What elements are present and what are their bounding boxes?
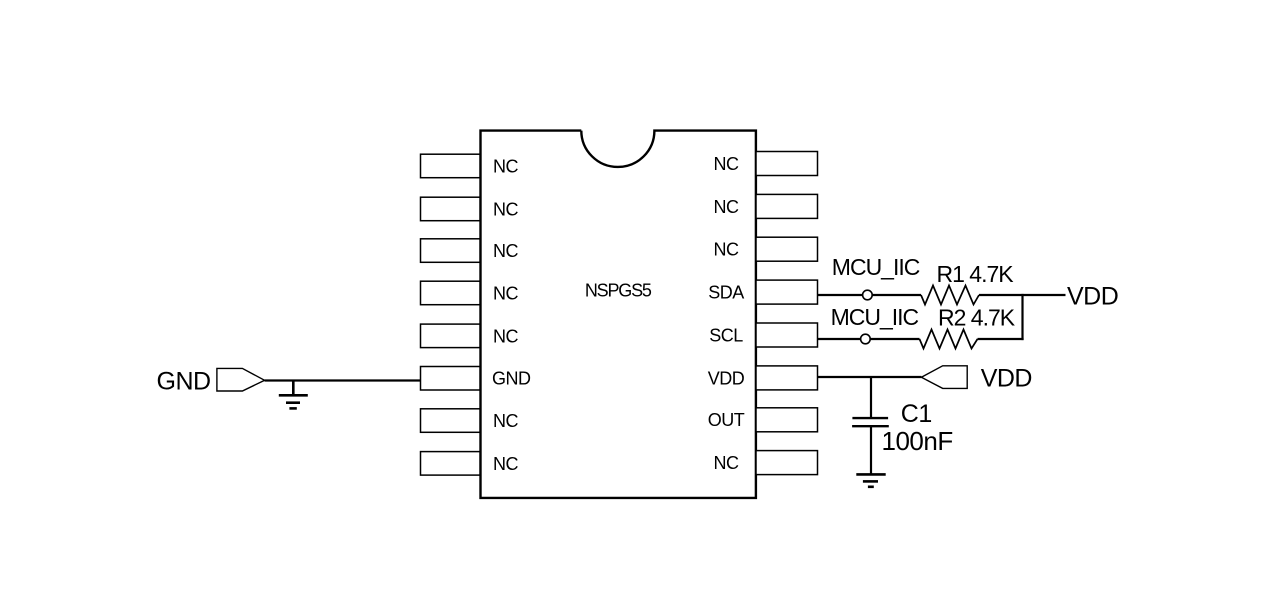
pin 13 right SDA — [756, 280, 818, 304]
svg-text:GND: GND — [157, 368, 211, 396]
svg-text:NSPGS5: NSPGS5 — [585, 281, 652, 301]
node circle on SDA wire — [863, 290, 873, 300]
svg-text:NC: NC — [493, 199, 518, 219]
svg-text:100nF: 100nF — [882, 426, 953, 456]
pin 10 right OUT — [756, 408, 818, 432]
wire capacitor to ground — [870, 426, 872, 474]
wire SCL pin to R2 — [818, 338, 920, 340]
svg-text:GND: GND — [492, 369, 531, 389]
GND connector flag — [217, 368, 265, 391]
svg-text:NC: NC — [493, 157, 518, 177]
pin 11 right VDD — [756, 366, 818, 390]
svg-text:NC: NC — [714, 453, 739, 473]
svg-text:NC: NC — [493, 283, 518, 303]
pin 16 right NC — [756, 152, 818, 176]
wire R2 to junction — [978, 338, 1024, 340]
svg-text:MCU_IIC: MCU_IIC — [832, 254, 920, 280]
svg-text:OUT: OUT — [708, 410, 745, 430]
svg-text:VDD: VDD — [708, 369, 745, 389]
svg-text:VDD: VDD — [981, 364, 1032, 392]
pin 5 left NC — [421, 324, 481, 348]
pin 3 left NC — [421, 239, 481, 262]
pin 8 left NC — [421, 452, 481, 476]
wire VDD pin to VDD connector — [818, 376, 922, 378]
wire SDA pin to R1 — [818, 294, 922, 296]
pin 12 right SCL — [756, 323, 818, 347]
wire junction vertical R1-R2 — [1021, 294, 1023, 340]
wire VDD junction down to capacitor C1 — [870, 377, 872, 418]
pin 4 left NC — [421, 281, 481, 305]
capacitor C1 plates — [852, 418, 889, 426]
svg-text:NC: NC — [714, 240, 739, 260]
svg-text:NC: NC — [493, 411, 518, 431]
svg-text:NC: NC — [714, 154, 739, 174]
svg-text:SDA: SDA — [708, 283, 744, 303]
ground symbol at GND wire — [279, 381, 308, 409]
pin 7 left NC — [421, 409, 481, 433]
wire GND connector to pin 6 — [265, 379, 421, 381]
svg-text:R1 4.7K: R1 4.7K — [937, 261, 1015, 287]
svg-text:VDD: VDD — [1067, 282, 1118, 310]
ground symbol below C1 — [856, 474, 885, 486]
pin 6 left GND — [421, 367, 481, 391]
VDD connector flag — [921, 366, 967, 389]
resistor R2 zigzag — [920, 330, 978, 349]
pin 15 right NC — [756, 194, 818, 218]
resistor R1 zigzag — [921, 286, 979, 305]
op-amp U1 NSPGS5 IC body with notch — [481, 131, 756, 498]
svg-text:R2 4.7K: R2 4.7K — [938, 304, 1016, 330]
wire R1 to VDD — [979, 294, 1066, 296]
svg-text:NC: NC — [714, 197, 739, 217]
svg-text:MCU_IIC: MCU_IIC — [831, 304, 919, 330]
pin 1 left NC — [421, 154, 481, 178]
svg-text:NC: NC — [493, 454, 518, 474]
pin 14 right NC — [756, 237, 818, 261]
svg-text:C1: C1 — [901, 400, 932, 428]
pin 9 right NC — [756, 451, 818, 475]
pin 2 left NC — [421, 197, 481, 221]
svg-text:SCL: SCL — [709, 326, 743, 346]
svg-text:NC: NC — [493, 326, 518, 346]
svg-text:NC: NC — [493, 241, 518, 261]
node circle on SCL wire — [861, 334, 871, 344]
